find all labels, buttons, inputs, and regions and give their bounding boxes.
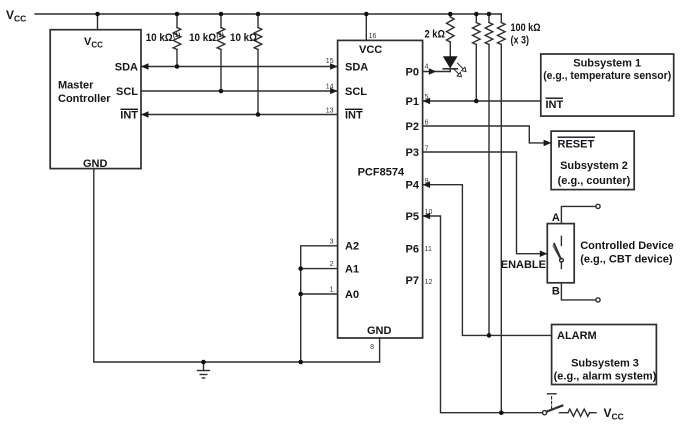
junction dot SCL/R2 [219,89,224,94]
resistor R5 100 kOhm (to P1 line) [472,14,480,101]
Master Controller name text [58,80,111,106]
wire INT bus [141,114,338,116]
PCF8574 P1 pin label [406,96,419,108]
svg-text:1: 1 [330,287,334,294]
Master Controller VCC pin label [84,36,103,49]
wire P3 to ENABLE [423,152,548,254]
pin 13 number label [326,108,334,115]
svg-text:INT: INT [546,99,564,111]
Controlled Device title text [580,240,674,266]
svg-text:GND: GND [83,158,108,170]
resistor R2 10 kOhm pull-up SCL [217,14,225,91]
pin 8 number label [370,344,374,351]
value label 2 kOhm for R4 [425,29,446,41]
PCF8574 SDA pin label [345,61,368,73]
node B label [552,286,560,298]
wire PCF8574 pin 8 GND down [379,338,381,362]
arrow P0 output direction [429,68,437,75]
wire P5 to switch line [423,216,543,413]
svg-text:A: A [552,212,560,224]
node A label [552,212,560,224]
svg-text:P2: P2 [406,121,419,133]
wire SDA bus [141,66,338,68]
svg-text:P6: P6 [406,243,419,255]
Master Controller GND pin label [83,158,108,170]
pin 10 number label [425,209,433,216]
pin 7 number label [425,146,429,153]
pin 4 number label [425,64,429,71]
wire A1 strap [301,268,338,270]
svg-text:Subsystem 1: Subsystem 1 [573,57,641,69]
Subsystem 1 INT pin label (active low) [546,98,564,112]
pin 14 number label [326,84,334,91]
wire P1 to Subsystem 1 [423,100,541,102]
node VCC label at switch [604,406,624,422]
wire A2 strap [301,246,338,362]
PCF8574 P7 pin label [406,275,419,287]
Subsystem 1 box [541,54,674,116]
resistor R8 (switch pull to VCC) [568,409,596,416]
svg-text:P7: P7 [406,275,419,287]
svg-text:3: 3 [330,239,334,246]
PCF8574 P3 pin label [406,147,419,159]
value label 10 kOhm (1) for R1 [146,32,181,44]
arrow P1 input direction [423,98,431,105]
value label 10 kOhm for R3 [230,32,257,44]
svg-text:2 kΩ: 2 kΩ [425,29,446,41]
svg-text:VCC: VCC [6,8,26,24]
node A terminal [561,204,600,223]
Subsystem 1 title text [543,57,671,82]
Subsystem 2 RESET pin label (active low) [558,137,596,151]
PCF8574 A1 pin label [345,263,359,275]
switch S2 (momentary, to VCC) [543,394,563,415]
svg-text:P0: P0 [406,66,419,78]
svg-text:SCL: SCL [116,86,138,98]
resistor R6 100 kOhm (to ALARM line) [485,14,493,335]
LED D1 [443,56,458,71]
svg-text:INT: INT [345,109,363,121]
svg-text:ALARM: ALARM [557,330,597,342]
junction dot switch line/R7 [499,410,504,415]
Master Controller INT pin label (active low) [120,109,138,122]
svg-text:(1): (1) [173,33,180,39]
svg-text:Subsystem 3: Subsystem 3 [571,357,639,369]
svg-text:Master: Master [58,80,94,92]
junction dot ground/ground symbol [201,360,206,365]
svg-text:P4: P4 [406,180,420,192]
arrow SCL into PCF8574 pin 14 [330,88,338,95]
wire VCC top rail [35,13,501,15]
svg-text:10 kΩ: 10 kΩ [230,32,257,44]
value label 100 kOhm (x 3) [511,22,541,47]
Master Controller U1 [50,30,141,169]
svg-text:VCC: VCC [359,44,382,56]
svg-text:(x 3): (x 3) [511,35,530,47]
node B terminal [561,283,600,302]
resistor R3 10 kOhm pull-up INT [254,14,262,115]
svg-text:10 kΩ: 10 kΩ [146,32,173,44]
svg-text:SCL: SCL [345,86,367,98]
pin 9 number label [425,178,429,185]
svg-text:INT: INT [120,109,138,121]
svg-text:2: 2 [330,261,334,268]
svg-text:RESET: RESET [558,138,595,150]
PCF8574 SCL pin label [345,86,367,98]
svg-text:(1): (1) [216,33,223,39]
svg-text:P5: P5 [406,211,419,223]
node VCC supply label [6,8,26,24]
svg-text:VCC: VCC [604,406,624,422]
svg-text:Controlled Device: Controlled Device [580,240,674,252]
LED emission arrows [453,63,466,77]
PCF8574 A2 pin label [345,241,359,253]
junction dots on VCC rail [95,12,491,17]
pin 2 number label [330,261,334,268]
svg-text:B: B [552,286,560,298]
PCF8574 part number text [358,167,405,179]
svg-text:13: 13 [326,108,334,115]
svg-text:P1: P1 [406,96,419,108]
PCF8574 P5 pin label [406,211,419,223]
svg-text:16: 16 [369,33,377,40]
svg-text:14: 14 [326,84,334,91]
svg-text:(e.g., alarm system): (e.g., alarm system) [554,371,657,383]
ENABLE net label [501,259,546,271]
junction dot SDA/R1 [175,64,180,69]
PCF8574 P6 pin label [406,243,419,255]
pin 5 number label [425,94,429,101]
wire switch to resistor [560,412,569,414]
junction dot A0 strap [298,292,303,297]
junction dot A1 strap [298,266,303,271]
svg-text:A2: A2 [345,241,359,253]
svg-text:8: 8 [370,344,374,351]
PCF8574 GND pin label [367,325,392,337]
svg-text:4: 4 [425,64,429,71]
switch S1 inside controlled device [553,236,563,268]
arrow SDA into PCF8574 pin 15 [330,63,338,70]
svg-text:100 kΩ: 100 kΩ [511,22,541,34]
wire Master GND down to ground rail [94,169,380,362]
svg-text:Controller: Controller [58,93,111,105]
Master Controller SDA pin label [115,61,138,73]
PCF8574 U2 [338,40,423,338]
junction dot P1/R5 [474,99,479,104]
arrow INT into Master Controller [141,111,149,118]
PCF8574 P0 pin label [406,66,419,78]
resistor R7 100 kOhm (to switch line) [497,14,505,413]
Controlled Device box [547,224,574,283]
pin 11 number label [425,246,432,253]
resistor R1 10 kOhm pull-up SDA [173,14,181,67]
pin 16 number label [369,33,377,40]
wire P2 to Subsystem 2 RESET [423,126,551,143]
arrow into ENABLE [540,250,548,257]
pin 1 number label [330,287,334,294]
arrow P4 input direction [423,181,431,188]
svg-text:P3: P3 [406,147,419,159]
resistor R4 2 kOhm LED series [446,14,454,56]
pin 3 number label [330,239,334,246]
Subsystem 2 title text [558,160,631,187]
value label 10 kOhm (1) for R2 [189,32,224,44]
pin 15 number label [326,58,334,65]
Subsystem 2 box [551,131,634,190]
wire VCC rail to Master Controller VCC pin [97,14,99,30]
svg-text:15: 15 [326,58,334,65]
arrow SDA into Master Controller [141,63,149,70]
wire VCC rail to PCF8574 pin 16 [365,14,367,40]
svg-text:11: 11 [425,246,432,253]
svg-text:ENABLE: ENABLE [501,259,546,271]
svg-text:(e.g., temperature sensor): (e.g., temperature sensor) [543,70,671,82]
svg-text:12: 12 [425,279,433,286]
wire SCL bus [141,90,338,92]
ground symbol [198,362,210,378]
junction dot ALARM/R6 [487,333,492,338]
wire A0 strap [301,293,338,295]
wire P0 to LED [423,71,451,73]
PCF8574 P2 pin label [406,121,419,133]
PCF8574 VCC pin label [359,44,382,56]
arrow P5 input direction [423,213,431,220]
PCF8574 INT pin label (active low) [345,109,363,122]
Master Controller SCL pin label [116,86,138,98]
svg-text:(e.g., CBT device): (e.g., CBT device) [580,254,673,266]
PCF8574 P4 pin label [406,180,420,192]
junction dot ground/A straps [298,360,303,365]
wire P4 to ALARM line [423,185,552,336]
Subsystem 3 title text [554,357,657,382]
svg-text:10 kΩ: 10 kΩ [189,32,216,44]
svg-text:SDA: SDA [345,61,368,73]
arrow into RESET [544,140,552,147]
Subsystem 3 ALARM pin label [557,330,597,342]
pin 6 number label [425,120,429,127]
svg-text:A0: A0 [345,289,359,301]
pin 12 number label [425,279,433,286]
PCF8574 A0 pin label [345,289,359,301]
svg-text:GND: GND [367,325,392,337]
svg-text:Subsystem 2: Subsystem 2 [560,160,628,172]
svg-text:SDA: SDA [115,61,138,73]
svg-text:VCC: VCC [84,36,103,49]
svg-text:(e.g., counter): (e.g., counter) [558,175,631,187]
Subsystem 3 box [552,325,657,385]
junction dot INT/R3 [256,112,261,117]
svg-text:PCF8574: PCF8574 [358,167,405,179]
svg-text:A1: A1 [345,263,359,275]
